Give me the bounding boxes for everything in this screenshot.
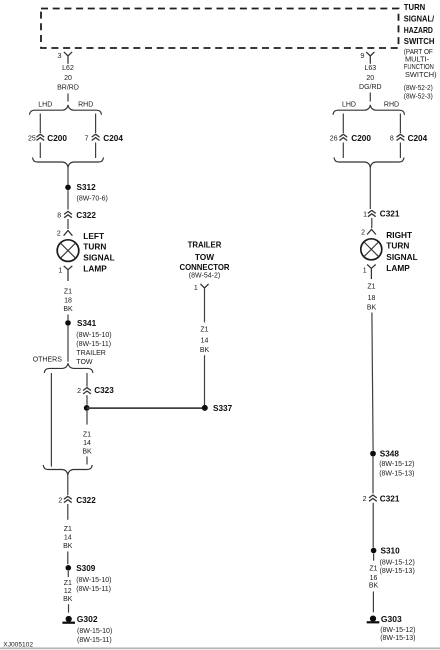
svg-text:TURN: TURN bbox=[83, 242, 106, 252]
svg-text:(8W-52-2): (8W-52-2) bbox=[404, 85, 433, 92]
svg-text:LHD: LHD bbox=[342, 102, 356, 109]
svg-text:14: 14 bbox=[64, 535, 72, 542]
svg-text:TURN: TURN bbox=[404, 2, 425, 12]
svg-text:OTHERS: OTHERS bbox=[33, 357, 63, 364]
svg-text:Z1: Z1 bbox=[64, 288, 72, 295]
svg-text:(8W-15-12): (8W-15-12) bbox=[380, 559, 415, 566]
svg-text:BK: BK bbox=[63, 306, 73, 313]
svg-text:20: 20 bbox=[64, 75, 72, 82]
svg-text:C322: C322 bbox=[76, 496, 96, 505]
svg-text:CONNECTOR: CONNECTOR bbox=[179, 262, 229, 272]
svg-text:(8W-15-10): (8W-15-10) bbox=[77, 628, 112, 635]
svg-text:BK: BK bbox=[82, 449, 92, 456]
svg-text:C204: C204 bbox=[103, 134, 123, 143]
svg-text:18: 18 bbox=[368, 295, 376, 302]
svg-text:BK: BK bbox=[367, 305, 377, 312]
svg-text:LAMP: LAMP bbox=[83, 263, 107, 273]
svg-text:RIGHT: RIGHT bbox=[386, 230, 412, 240]
svg-text:S348: S348 bbox=[380, 450, 400, 459]
svg-text:TRAILER: TRAILER bbox=[188, 240, 222, 250]
svg-text:SWITCH): SWITCH) bbox=[405, 70, 437, 79]
svg-text:S341: S341 bbox=[77, 319, 97, 328]
svg-text:LEFT: LEFT bbox=[83, 231, 104, 241]
svg-text:(8W-15-11): (8W-15-11) bbox=[77, 637, 112, 644]
svg-text:HAZARD: HAZARD bbox=[404, 25, 433, 35]
svg-text:8: 8 bbox=[57, 213, 61, 220]
svg-text:20: 20 bbox=[366, 75, 374, 82]
svg-text:BR/RD: BR/RD bbox=[57, 85, 79, 92]
svg-text:(8W-15-13): (8W-15-13) bbox=[380, 635, 415, 642]
svg-text:(8W-15-13): (8W-15-13) bbox=[379, 471, 414, 478]
svg-text:BK: BK bbox=[369, 583, 379, 590]
svg-text:7: 7 bbox=[85, 136, 89, 143]
svg-text:Z1: Z1 bbox=[369, 566, 377, 573]
svg-text:LHD: LHD bbox=[38, 102, 52, 109]
svg-text:Z1: Z1 bbox=[64, 580, 72, 587]
svg-text:(8W-15-13): (8W-15-13) bbox=[380, 568, 415, 575]
svg-text:S337: S337 bbox=[213, 404, 233, 413]
svg-text:Z1: Z1 bbox=[83, 431, 91, 438]
svg-text:3: 3 bbox=[58, 53, 62, 60]
svg-text:16: 16 bbox=[370, 575, 378, 582]
svg-text:2: 2 bbox=[361, 230, 365, 237]
svg-text:LAMP: LAMP bbox=[386, 263, 410, 273]
svg-text:(8W-15-11): (8W-15-11) bbox=[76, 586, 111, 593]
svg-text:BK: BK bbox=[200, 347, 210, 354]
svg-text:Z1: Z1 bbox=[200, 326, 208, 333]
svg-text:C321: C321 bbox=[380, 210, 400, 219]
svg-text:C322: C322 bbox=[76, 211, 96, 220]
svg-text:TOW: TOW bbox=[195, 252, 214, 262]
svg-text:(8W-15-12): (8W-15-12) bbox=[380, 627, 415, 634]
svg-text:G302: G302 bbox=[77, 614, 98, 624]
svg-text:SIGNAL: SIGNAL bbox=[386, 252, 417, 262]
svg-text:8: 8 bbox=[390, 136, 394, 143]
svg-text:25: 25 bbox=[28, 136, 36, 143]
svg-text:BK: BK bbox=[63, 543, 73, 550]
svg-text:TOW: TOW bbox=[76, 359, 93, 366]
svg-text:(8W-70-6): (8W-70-6) bbox=[77, 195, 108, 202]
svg-text:(8W-54-2): (8W-54-2) bbox=[189, 272, 220, 279]
svg-text:G303: G303 bbox=[381, 614, 402, 624]
svg-text:14: 14 bbox=[201, 337, 209, 344]
svg-text:26: 26 bbox=[330, 136, 338, 143]
svg-text:(8W-15-12): (8W-15-12) bbox=[379, 461, 414, 468]
svg-text:Z1: Z1 bbox=[64, 526, 72, 533]
svg-text:SIGNAL: SIGNAL bbox=[83, 253, 114, 263]
svg-text:1: 1 bbox=[194, 285, 198, 292]
svg-text:2: 2 bbox=[58, 498, 62, 505]
svg-text:2: 2 bbox=[77, 388, 81, 395]
svg-text:14: 14 bbox=[83, 440, 91, 447]
svg-text:SWITCH: SWITCH bbox=[404, 36, 435, 46]
svg-text:DG/RD: DG/RD bbox=[359, 84, 382, 91]
svg-text:C321: C321 bbox=[380, 495, 400, 504]
svg-text:C323: C323 bbox=[94, 386, 114, 395]
svg-text:(8W-15-11): (8W-15-11) bbox=[76, 341, 111, 348]
svg-text:2: 2 bbox=[57, 231, 61, 238]
svg-text:C200: C200 bbox=[47, 134, 67, 143]
svg-text:S312: S312 bbox=[77, 183, 97, 192]
svg-text:TRAILER: TRAILER bbox=[76, 350, 106, 357]
svg-text:18: 18 bbox=[64, 298, 72, 305]
svg-text:C200: C200 bbox=[351, 134, 371, 143]
svg-text:L63: L63 bbox=[364, 65, 376, 72]
svg-text:12: 12 bbox=[64, 588, 72, 595]
svg-text:1: 1 bbox=[58, 268, 62, 275]
svg-text:L62: L62 bbox=[62, 65, 74, 72]
svg-text:(8W-52-3): (8W-52-3) bbox=[404, 94, 433, 101]
svg-text:9: 9 bbox=[360, 53, 364, 60]
svg-text:S309: S309 bbox=[76, 564, 96, 573]
svg-text:(8W-15-10): (8W-15-10) bbox=[76, 577, 111, 584]
svg-text:C204: C204 bbox=[408, 134, 428, 143]
svg-text:TURN: TURN bbox=[386, 241, 409, 251]
svg-text:S310: S310 bbox=[381, 547, 401, 556]
svg-text:SIGNAL/: SIGNAL/ bbox=[404, 14, 435, 24]
svg-text:1: 1 bbox=[363, 211, 367, 218]
svg-text:(8W-15-10): (8W-15-10) bbox=[76, 332, 111, 339]
svg-text:1: 1 bbox=[363, 267, 367, 274]
svg-text:RHD: RHD bbox=[78, 102, 93, 109]
svg-text:RHD: RHD bbox=[384, 102, 399, 109]
svg-text:Z1: Z1 bbox=[367, 284, 375, 291]
svg-text:BK: BK bbox=[63, 596, 73, 603]
svg-text:2: 2 bbox=[363, 496, 367, 503]
